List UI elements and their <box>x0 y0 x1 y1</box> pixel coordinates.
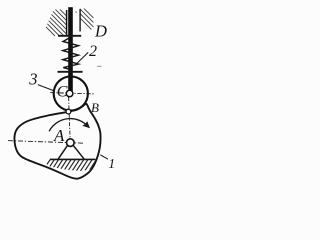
rotation arrow arc <box>49 119 88 132</box>
guide D right block wall line <box>79 9 81 32</box>
cam 1 profile <box>14 104 100 179</box>
scan speck <box>75 11 76 12</box>
guide D left block wall line <box>66 10 68 36</box>
support triangle left leg <box>58 145 68 159</box>
rotation arrowhead <box>82 121 90 128</box>
support triangle right leg <box>73 145 84 159</box>
guide D left block hatching <box>25 6 87 36</box>
spring 2 coil <box>63 37 79 69</box>
svg-text:A: A <box>53 126 65 145</box>
spring bottom seat <box>58 71 83 73</box>
spring top seat <box>58 35 81 37</box>
contact point B circle <box>66 109 71 114</box>
crosshair horizontal at C <box>50 93 94 94</box>
roller circle C <box>54 76 88 110</box>
svg-text:3: 3 <box>28 69 37 88</box>
centerline vertical C to A <box>69 97 71 139</box>
leader to 2 <box>76 52 89 64</box>
follower rod <box>68 7 73 91</box>
hub at C <box>66 90 73 97</box>
svg-text:B: B <box>91 100 99 115</box>
svg-text:2: 2 <box>89 43 97 60</box>
pivot A circle <box>67 139 75 147</box>
ground base line <box>50 158 96 160</box>
ground hatching <box>41 160 96 173</box>
svg-text:C: C <box>57 83 68 100</box>
svg-text:D: D <box>94 21 107 40</box>
centerline horizontal through A <box>8 141 85 144</box>
svg-text:1: 1 <box>108 156 115 171</box>
guide D right block hatching <box>66 4 119 34</box>
leader to 3 <box>38 85 54 91</box>
scan speck <box>97 66 101 67</box>
leader to 1 <box>100 155 108 159</box>
